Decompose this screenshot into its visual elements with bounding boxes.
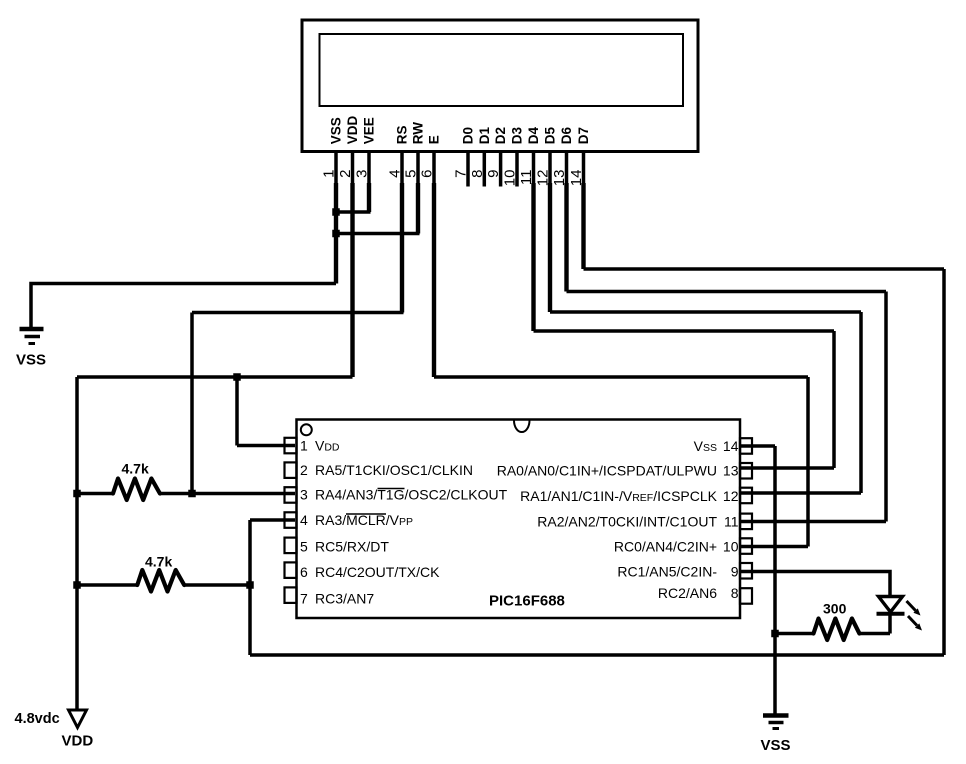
svg-text:9: 9: [485, 170, 502, 178]
svg-text:RC5/RX/DT: RC5/RX/DT: [315, 539, 389, 555]
IC pin box 12: [740, 488, 752, 504]
LCD pin stub 7 (D0 unconnected): [466, 152, 470, 187]
resistor R3 300 zigzag: [814, 619, 860, 641]
wire LCD pin5 RW down: [416, 183, 420, 234]
svg-text:RW: RW: [411, 122, 426, 145]
IC pin box 10: [740, 538, 752, 554]
IC pin 2 label: [300, 462, 473, 478]
IC pin box 3: [285, 487, 297, 503]
wire VDD horizontal rail: [77, 375, 353, 379]
resistor R3 300 right lead: [859, 632, 890, 636]
IC pin box 5: [285, 538, 297, 554]
svg-text:PIC16F688: PIC16F688: [489, 593, 565, 610]
svg-text:5: 5: [403, 170, 420, 178]
svg-text:VSS: VSS: [329, 117, 344, 144]
wire bottom rail D7 to MCLR: [250, 653, 944, 657]
wire chip pin4 RA3: [250, 518, 295, 522]
svg-text:11: 11: [724, 514, 739, 530]
wire chip pin11 RA2: [741, 520, 886, 524]
svg-text:3: 3: [300, 487, 308, 503]
wire D4 vertical down: [832, 331, 836, 468]
IC pin 1 label: [300, 438, 340, 454]
wire LCD pin6 E down: [432, 183, 436, 377]
svg-text:VDD: VDD: [62, 733, 94, 750]
VDD supply arrow bottom-left: [69, 710, 87, 728]
IC pin box 8: [740, 588, 752, 604]
wire LCD pin2 VDD down: [350, 183, 354, 377]
IC pin box 9: [740, 563, 752, 579]
wire LCD pin1 VSS down: [334, 183, 338, 284]
svg-text:RC0/AN4/C2IN+: RC0/AN4/C2IN+: [614, 539, 717, 555]
wire chip pin12 RA1: [741, 491, 861, 495]
svg-text:D5: D5: [543, 126, 558, 144]
LED light arrow 2: [908, 616, 922, 631]
IC pin box 13: [740, 463, 752, 479]
wire D7 right vertical down: [942, 269, 946, 655]
resistor R1 4.7k zigzag: [113, 479, 160, 501]
svg-text:8: 8: [731, 585, 739, 601]
IC pin 5 label: [300, 539, 389, 555]
LCD pin stub 5: [416, 152, 420, 187]
resistor R1 4.7k left lead: [77, 492, 113, 496]
IC pin 14 label: [694, 438, 739, 454]
IC pin 11 label: [537, 514, 738, 530]
LCD pin stub 9 (D2 unconnected): [499, 152, 503, 187]
ground symbol VSS top-left: [20, 329, 44, 344]
LCD screen inner rectangle: [320, 34, 684, 106]
wire chip pin14 VSS horizontal: [741, 444, 775, 448]
wire D6 vertical down: [884, 292, 888, 522]
junction VDD rail / chip pin1: [233, 373, 241, 381]
wire E vertical down to chip pin10: [806, 377, 810, 547]
svg-text:13: 13: [723, 463, 739, 479]
IC pin 12 label: [520, 488, 739, 504]
wire MCLR vertical up: [248, 520, 252, 655]
IC pin 9 label: [617, 564, 738, 580]
junction VEE/VSS node: [332, 208, 340, 216]
svg-text:RC4/C2OUT/TX/CK: RC4/C2OUT/TX/CK: [315, 564, 440, 580]
svg-text:4: 4: [387, 170, 404, 178]
wire LCD pin12 D5 down: [548, 183, 552, 312]
svg-text:2: 2: [337, 170, 354, 178]
IC pin 3 label with T1G overline: [300, 487, 508, 503]
IC U1 PIC16F688 body: [297, 420, 741, 619]
svg-text:VEE: VEE: [362, 117, 377, 144]
svg-text:RC1/AN5/C2IN-: RC1/AN5/C2IN-: [617, 564, 717, 580]
svg-text:4.7k: 4.7k: [122, 461, 149, 477]
wire VSS to left ground: [31, 284, 336, 330]
svg-text:VSS: VSS: [16, 352, 46, 369]
wire LCD pin3 VEE down: [367, 183, 371, 212]
IC pin box 7: [285, 587, 297, 603]
wire VSS rail down to bottom ground: [773, 446, 777, 714]
svg-text:RA4/AN3/T1G/OSC2/CLKOUT: RA4/AN3/T1G/OSC2/CLKOUT: [315, 487, 508, 503]
svg-text:10: 10: [502, 170, 519, 187]
wire LCD pin14 D7 down: [581, 183, 585, 269]
LED light arrow 1: [907, 601, 921, 616]
LCD pin stub 11: [532, 152, 536, 187]
LCD pin stub 3: [367, 152, 371, 187]
LCD pin stub 14: [582, 152, 586, 187]
svg-text:6: 6: [300, 564, 308, 580]
wire chip pin1 VDD vertical: [235, 375, 239, 445]
resistor R2 4.7k right lead: [184, 583, 250, 587]
svg-text:D2: D2: [493, 127, 508, 144]
svg-text:E: E: [427, 135, 442, 144]
svg-text:VSS: VSS: [761, 737, 791, 754]
svg-text:RS: RS: [395, 125, 410, 144]
svg-text:D1: D1: [477, 126, 492, 144]
svg-text:4.7k: 4.7k: [145, 554, 172, 570]
svg-text:12: 12: [723, 488, 739, 504]
IC pin 8 label: [658, 585, 739, 601]
resistor R3 300 left lead: [775, 632, 814, 636]
wire RS horizontal: [192, 311, 404, 315]
LED D1 cathode bar: [877, 612, 905, 616]
IC U1 top notch: [514, 421, 530, 433]
LCD module LCD1 outer body: [302, 20, 698, 152]
IC pin box 2: [285, 462, 297, 478]
wire D5 horizontal: [550, 310, 861, 314]
IC U1 pin1 indicator circle: [301, 424, 312, 435]
svg-text:D4: D4: [526, 126, 541, 144]
wire chip pin13 RA0: [741, 466, 834, 470]
svg-text:4: 4: [300, 512, 308, 528]
svg-text:VDD: VDD: [345, 115, 360, 144]
wire chip pin10 RC0: [741, 545, 808, 549]
svg-text:D3: D3: [510, 126, 525, 144]
svg-text:6: 6: [419, 170, 436, 178]
LCD pin stub 4: [400, 152, 404, 187]
IC pin box 11: [740, 514, 752, 530]
svg-text:RA1/AN1/C1IN-/VREF/ICSPCLK: RA1/AN1/C1IN-/VREF/ICSPCLK: [520, 488, 718, 504]
svg-text:10: 10: [723, 539, 739, 555]
wire RS vertical to chip pin3 net: [190, 313, 194, 494]
svg-text:RC2/AN6: RC2/AN6: [658, 585, 717, 601]
IC pin 10 label: [614, 539, 739, 555]
svg-text:1: 1: [321, 170, 338, 178]
LCD pin stub 6: [432, 152, 436, 187]
svg-text:7: 7: [453, 170, 470, 178]
wire chip pin9 RC1 to LED: [741, 572, 890, 598]
svg-text:RC3/AN7: RC3/AN7: [315, 591, 374, 607]
ground symbol VSS bottom-right: [763, 716, 789, 729]
IC pin box 4: [285, 512, 297, 528]
LCD pin stub 2: [351, 152, 355, 187]
IC pin 7 label: [300, 591, 374, 607]
svg-text:RA5/T1CKI/OSC1/CLKIN: RA5/T1CKI/OSC1/CLKIN: [315, 462, 473, 478]
svg-text:4.8vdc: 4.8vdc: [15, 711, 60, 727]
svg-text:300: 300: [823, 601, 847, 617]
junction VDD rail / R1: [73, 490, 81, 498]
junction RW/VSS node: [332, 230, 340, 238]
svg-text:VSS: VSS: [694, 438, 717, 454]
junction VSS rail / R3: [771, 630, 779, 638]
svg-text:RA2/AN2/T0CKI/INT/C1OUT: RA2/AN2/T0CKI/INT/C1OUT: [537, 514, 717, 530]
wire LCD pin11 D4 down: [531, 183, 535, 331]
wire D4 horizontal: [534, 329, 835, 333]
svg-text:9: 9: [731, 564, 739, 580]
IC pin 13 label: [497, 463, 739, 479]
LCD pin stub 1: [334, 152, 338, 187]
wire VEE to VSS net: [336, 210, 371, 214]
LED D1 anode triangle: [879, 597, 903, 613]
wire chip pin1 VDD horizontal: [237, 444, 295, 448]
svg-text:D7: D7: [576, 127, 591, 144]
junction VDD rail / R2: [73, 581, 81, 589]
svg-text:11: 11: [518, 170, 535, 186]
junction R1 / RS / chip pin3: [188, 490, 196, 498]
IC pin box 6: [285, 562, 297, 578]
IC pin box 14: [740, 438, 752, 454]
svg-text:VDD: VDD: [315, 438, 340, 454]
svg-text:7: 7: [300, 591, 308, 607]
resistor R2 4.7k zigzag: [137, 570, 184, 592]
wire D5 vertical down: [859, 312, 863, 493]
svg-text:RA0/AN0/C1IN+/ICSPDAT/ULPWU: RA0/AN0/C1IN+/ICSPDAT/ULPWU: [497, 463, 717, 479]
LED D1 cathode wire: [888, 614, 892, 634]
svg-text:1: 1: [300, 438, 308, 454]
wire LCD pin4 RS down: [400, 183, 404, 313]
wire D6 horizontal: [567, 290, 887, 294]
LCD pin stub 13: [565, 152, 569, 187]
IC pin 6 label: [300, 564, 440, 580]
wire VDD left rail vertical: [75, 377, 79, 709]
IC pin box 1: [285, 438, 297, 454]
svg-text:2: 2: [300, 462, 308, 478]
junction R2 / MCLR vertical: [246, 581, 254, 589]
svg-text:D0: D0: [461, 127, 476, 144]
svg-text:8: 8: [469, 170, 486, 178]
wire D7 horizontal: [584, 267, 945, 271]
wire E horizontal to right: [434, 375, 808, 379]
LCD pin stub 8 (D1 unconnected): [483, 152, 487, 187]
wire LCD pin13 D6 down: [564, 183, 568, 292]
wire junction to chip pin3: [192, 492, 295, 496]
resistor R2 4.7k left lead: [77, 583, 137, 587]
IC pin 4 label with MCLR overline: [300, 512, 413, 528]
LCD pin stub 10 (D3 unconnected): [515, 152, 519, 187]
svg-text:5: 5: [300, 539, 308, 555]
wire RW to VSS net: [336, 232, 420, 236]
resistor R1 4.7k right lead: [160, 492, 192, 496]
svg-text:3: 3: [354, 170, 371, 178]
svg-text:14: 14: [723, 438, 739, 454]
LCD pin stub 12: [548, 152, 552, 187]
svg-text:D6: D6: [559, 126, 574, 144]
